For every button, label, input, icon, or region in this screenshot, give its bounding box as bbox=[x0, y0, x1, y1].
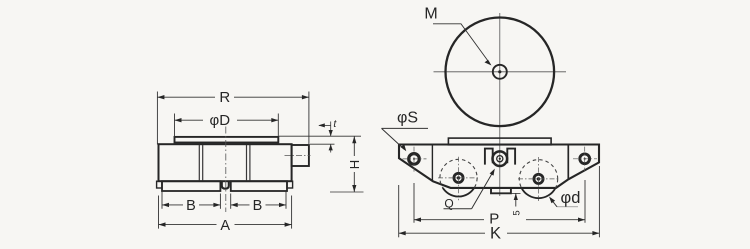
svg-text:φD: φD bbox=[210, 112, 231, 129]
right hook bracket bbox=[507, 149, 515, 165]
bottom tab bbox=[491, 188, 511, 193]
svg-text:R: R bbox=[219, 89, 230, 106]
leader M bbox=[433, 24, 490, 63]
dimension phiD bbox=[175, 114, 279, 137]
right wheel hub bbox=[534, 174, 543, 183]
left foot bbox=[162, 181, 220, 191]
wheel hub circle bbox=[493, 65, 507, 79]
svg-text:B: B bbox=[253, 198, 263, 214]
svg-text:Q: Q bbox=[444, 196, 453, 210]
svg-text:K: K bbox=[490, 225, 501, 243]
dimension P bbox=[414, 180, 585, 223]
left mounting hole bbox=[409, 154, 420, 165]
svg-text:B: B bbox=[186, 198, 196, 214]
body divider lines bbox=[199, 145, 250, 180]
frame joint line left bbox=[431, 145, 433, 182]
body block bbox=[159, 144, 292, 181]
dimension B left bbox=[162, 192, 220, 209]
wheel centerline vertical bbox=[499, 13, 501, 196]
dimension K bbox=[399, 166, 600, 237]
svg-text:A: A bbox=[220, 218, 230, 234]
big wheel M bbox=[446, 18, 555, 127]
svg-text:5: 5 bbox=[512, 210, 523, 215]
rail plate bbox=[448, 138, 551, 145]
right wheel dashed bbox=[519, 160, 557, 198]
svg-text:φd: φd bbox=[561, 189, 581, 207]
top plate bbox=[175, 137, 279, 143]
wheel centerline horizontal bbox=[434, 71, 567, 73]
frame joint line right bbox=[567, 145, 569, 180]
right lip bbox=[287, 181, 293, 188]
svg-text:H: H bbox=[347, 160, 362, 169]
dimension R bbox=[157, 92, 309, 146]
svg-text:φS: φS bbox=[397, 110, 418, 127]
dimension B right bbox=[231, 192, 286, 209]
dimension 5 bbox=[511, 192, 521, 194]
left wheel hub bbox=[454, 173, 463, 182]
right protrusion bbox=[292, 145, 309, 166]
dimension A bbox=[159, 196, 292, 229]
hub center dot bbox=[498, 70, 501, 73]
protrusion centerline bbox=[285, 155, 311, 157]
dimension t bbox=[279, 122, 361, 153]
left wheel lower arc bbox=[443, 188, 474, 197]
left hook bracket bbox=[485, 149, 493, 165]
left wheel dashed bbox=[440, 159, 477, 196]
dimension H bbox=[330, 191, 364, 193]
right wheel lower arc bbox=[522, 188, 556, 198]
center tab bbox=[222, 182, 229, 189]
frame outline bbox=[399, 145, 599, 188]
left lip bbox=[157, 181, 162, 188]
right mounting hole bbox=[580, 154, 590, 164]
vertical centerline bbox=[225, 127, 227, 213]
adjuster bolt bbox=[493, 151, 508, 166]
right foot bbox=[231, 181, 287, 191]
svg-text:M: M bbox=[424, 6, 437, 23]
